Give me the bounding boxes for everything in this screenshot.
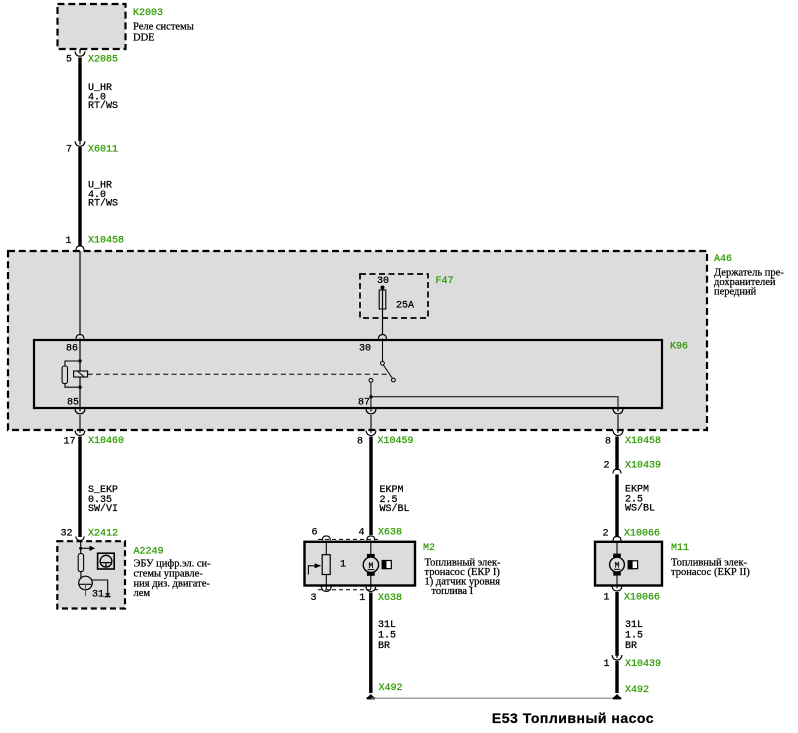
svg-text:WS/BL: WS/BL bbox=[380, 503, 410, 515]
svg-text:X2412: X2412 bbox=[88, 529, 118, 540]
svg-text:86: 86 bbox=[66, 344, 78, 355]
motor M11 bbox=[610, 543, 625, 585]
wire to ground right bbox=[615, 661, 618, 693]
svg-text:2: 2 bbox=[603, 461, 609, 472]
node 87 branch bbox=[369, 395, 372, 398]
label M11 bbox=[671, 543, 750, 578]
svg-text:E53 Топливный насос: E53 Топливный насос bbox=[492, 710, 654, 726]
wire U_HR 4.0 RT/WS lower bbox=[80, 147, 118, 246]
svg-text:X10458: X10458 bbox=[625, 436, 661, 447]
connector X10439 pin 2 bbox=[603, 461, 661, 474]
svg-text:31: 31 bbox=[92, 590, 104, 601]
node A2249 bbox=[79, 547, 82, 550]
svg-text:1: 1 bbox=[603, 593, 609, 604]
level sensor resistor bbox=[322, 555, 330, 575]
relay box K96 bbox=[34, 340, 688, 408]
label K2003 bbox=[133, 8, 194, 44]
svg-text:1.5: 1.5 bbox=[625, 631, 643, 642]
wire EKPM 2.5 WS/BL right bbox=[617, 475, 655, 538]
svg-text:RT/WS: RT/WS bbox=[88, 100, 118, 112]
svg-text:K2003: K2003 bbox=[133, 8, 163, 19]
resistor parallel to coil bbox=[62, 366, 67, 384]
connector X10460 pin 17 bbox=[63, 430, 124, 448]
svg-text:лем: лем bbox=[134, 588, 151, 599]
svg-text:передний: передний bbox=[714, 286, 757, 297]
ECU box A2249 bbox=[57, 541, 125, 608]
connector K96 pin 85 out bbox=[75, 408, 85, 430]
connector X10458 pin 8 right bbox=[605, 430, 661, 448]
connector X638 pins 3 and 1 bbox=[311, 586, 403, 605]
connector X10458 pin 1 bbox=[65, 236, 124, 251]
fuel pump box M2 bbox=[305, 542, 416, 586]
svg-text:25A: 25A bbox=[396, 301, 414, 312]
svg-text:топлива I: топлива I bbox=[431, 586, 473, 597]
resistor A2249 bbox=[78, 554, 83, 572]
label A46 bbox=[714, 254, 784, 297]
svg-text:A46: A46 bbox=[714, 254, 732, 265]
wire resistor to transistor bbox=[80, 572, 82, 579]
svg-text:31L: 31L bbox=[378, 620, 396, 631]
connector X2085 pin 5 bbox=[66, 51, 118, 65]
svg-text:17: 17 bbox=[63, 437, 75, 448]
wire contact to pin 87 bbox=[370, 382, 372, 408]
switch pivot bbox=[381, 361, 385, 365]
ground X492 left bbox=[367, 683, 403, 699]
signal arrow bbox=[81, 546, 96, 551]
wire S_EKP 0.35 SW/VI bbox=[80, 437, 118, 538]
connector K96 pin 87 out bbox=[366, 408, 376, 430]
svg-text:8: 8 bbox=[605, 437, 611, 448]
svg-text:1: 1 bbox=[340, 560, 346, 571]
svg-text:30: 30 bbox=[377, 276, 389, 287]
svg-text:A2249: A2249 bbox=[134, 547, 164, 558]
connector X6011 pin 7 bbox=[66, 141, 118, 156]
switch blade end bbox=[392, 378, 396, 382]
svg-text:85: 85 bbox=[67, 398, 79, 409]
wire 31L 1.5 BR middle bbox=[371, 593, 396, 694]
svg-text:M2: M2 bbox=[423, 543, 435, 554]
level sensor wire bbox=[325, 543, 327, 585]
wire transistor to ground bbox=[92, 580, 108, 593]
wire fuse bbox=[382, 288, 384, 336]
wire right column upper bbox=[615, 437, 618, 471]
connector X10439 pin 1 bbox=[603, 655, 661, 670]
svg-text:30: 30 bbox=[359, 344, 371, 355]
svg-text:X10439: X10439 bbox=[625, 461, 661, 472]
wire EKPM 2.5 WS/BL middle bbox=[371, 437, 410, 536]
transistor Q bbox=[79, 576, 93, 596]
svg-text:X2085: X2085 bbox=[88, 55, 118, 66]
svg-text:1: 1 bbox=[65, 236, 71, 247]
fuse carrier box A46 bbox=[8, 251, 707, 430]
connector X10066 pin 1 bbox=[603, 586, 660, 604]
svg-text:BR: BR bbox=[378, 641, 390, 652]
wire U_HR 4.0 RT/WS upper bbox=[80, 58, 118, 142]
svg-text:5: 5 bbox=[66, 55, 72, 66]
connector K96 87 branch out bbox=[613, 408, 623, 430]
node coil bottom bbox=[78, 386, 81, 389]
label M2 bbox=[423, 543, 501, 597]
svg-text:X10439: X10439 bbox=[625, 659, 661, 670]
svg-text:X10460: X10460 bbox=[88, 436, 124, 447]
ECU chip symbol bbox=[98, 553, 115, 569]
wire X10458 to K96 pin 86 bbox=[79, 251, 81, 335]
connector X2412 pin 32 bbox=[60, 529, 118, 541]
ground X492 right bbox=[613, 685, 649, 699]
svg-text:7: 7 bbox=[66, 145, 72, 156]
svg-text:WS/BL: WS/BL bbox=[625, 503, 655, 515]
level sensor arrow bbox=[308, 563, 321, 574]
wire 87 branch to right bbox=[371, 397, 618, 408]
svg-text:2: 2 bbox=[602, 528, 608, 539]
wire 31L 1.5 BR right bbox=[617, 592, 643, 656]
svg-text:X10458: X10458 bbox=[88, 236, 124, 247]
relay K2003 bbox=[58, 4, 126, 49]
svg-text:1: 1 bbox=[603, 659, 609, 670]
node coil top bbox=[78, 359, 81, 362]
motor M2 bbox=[363, 543, 378, 585]
svg-text:F47: F47 bbox=[436, 276, 454, 287]
svg-text:M11: M11 bbox=[671, 543, 689, 554]
svg-text:SW/VI: SW/VI bbox=[88, 503, 118, 515]
svg-text:32: 32 bbox=[60, 529, 72, 540]
wire resistor branch bbox=[65, 361, 80, 387]
pump symbol M11 bbox=[628, 560, 638, 569]
label F47 bbox=[377, 276, 454, 287]
svg-text:1: 1 bbox=[359, 593, 365, 604]
terminal 30 node bbox=[381, 286, 385, 290]
svg-text:4: 4 bbox=[359, 528, 365, 539]
svg-text:X638: X638 bbox=[378, 593, 402, 604]
connector K96 pin 30 bbox=[359, 335, 387, 355]
svg-text:X10459: X10459 bbox=[378, 436, 414, 447]
wire K2003 to X2085 bbox=[79, 49, 81, 54]
fuse F47 25A bbox=[379, 290, 414, 312]
svg-text:1.5: 1.5 bbox=[378, 631, 396, 642]
svg-text:X10066: X10066 bbox=[624, 593, 660, 604]
svg-text:K96: K96 bbox=[670, 342, 688, 353]
dashed actuation line bbox=[88, 373, 388, 375]
connector X10459 pin 8 bbox=[357, 430, 414, 448]
svg-text:X492: X492 bbox=[379, 683, 403, 694]
connector K96 pin 86 bbox=[66, 335, 84, 355]
fuse box F47 bbox=[360, 274, 428, 318]
svg-text:31L: 31L bbox=[625, 620, 643, 631]
svg-text:87: 87 bbox=[358, 398, 370, 409]
svg-text:тронасос (ЕКР II): тронасос (ЕКР II) bbox=[671, 567, 750, 578]
svg-text:BR: BR bbox=[625, 641, 637, 652]
switch blade bbox=[383, 365, 392, 379]
switch contact 87 bbox=[369, 378, 373, 382]
wire coil 86 to 85 bbox=[79, 339, 81, 409]
svg-text:Реле системы: Реле системы bbox=[133, 22, 194, 33]
wire 30 to switch bbox=[382, 339, 384, 362]
svg-text:X492: X492 bbox=[625, 685, 649, 696]
svg-text:6: 6 bbox=[312, 528, 318, 539]
ground strap wire bbox=[371, 697, 617, 699]
svg-text:X10066: X10066 bbox=[624, 528, 660, 539]
ground 31 in A2249 bbox=[92, 590, 111, 601]
wire A2249 input bbox=[80, 542, 82, 554]
svg-text:X6011: X6011 bbox=[88, 145, 118, 156]
svg-text:X638: X638 bbox=[378, 528, 402, 539]
svg-text:8: 8 bbox=[357, 437, 363, 448]
relay coil K96 bbox=[74, 371, 88, 377]
connector X638 pin 4 and 6 bbox=[312, 528, 403, 541]
connector X10066 pin 2 bbox=[602, 528, 660, 541]
label A2249 bbox=[134, 547, 212, 600]
fuel pump box M11 bbox=[595, 542, 662, 586]
svg-text:3: 3 bbox=[311, 593, 317, 604]
pump symbol M2 bbox=[382, 560, 391, 569]
svg-text:DDE: DDE bbox=[133, 33, 155, 44]
svg-text:RT/WS: RT/WS bbox=[88, 198, 118, 210]
